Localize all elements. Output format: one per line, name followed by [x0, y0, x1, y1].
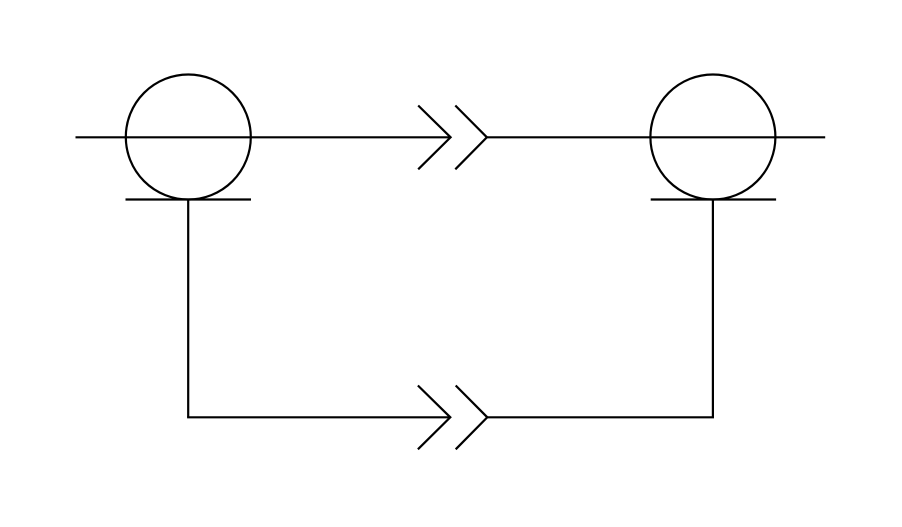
transducer U1 (left circle) — [126, 75, 251, 200]
chevron arrow A4 (bottom wire, second) — [456, 386, 488, 450]
chevron arrow A3 (bottom wire, first) — [418, 386, 450, 450]
chevron arrow A2 (top wire, second) — [455, 106, 487, 170]
wire: top horizontal, left segment — [76, 136, 451, 138]
wire: left vertical drop from U1 — [187, 200, 189, 418]
U2 base bar — [651, 198, 776, 200]
wire: bottom horizontal, right segment — [487, 416, 714, 418]
wire: top horizontal, right segment — [487, 136, 825, 138]
chevron arrow A1 (top wire, first) — [418, 106, 450, 170]
wire: right vertical drop from U2 — [712, 200, 714, 418]
U1 base bar — [126, 198, 252, 200]
wire: bottom horizontal, left segment — [187, 416, 450, 418]
transducer U2 (right circle) — [650, 75, 775, 200]
